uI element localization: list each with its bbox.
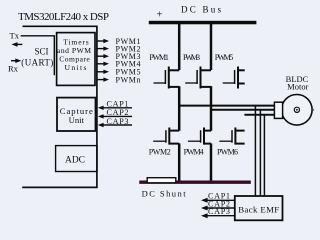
- svg-text:PWM3: PWM3: [183, 53, 200, 62]
- svg-text:(UART): (UART): [21, 58, 53, 68]
- svg-text:CAP3: CAP3: [107, 117, 129, 126]
- svg-text:Back EMF: Back EMF: [238, 204, 279, 214]
- svg-text:PWM6: PWM6: [217, 147, 238, 156]
- svg-text:PWM1: PWM1: [149, 53, 169, 62]
- svg-text:PWM2: PWM2: [149, 147, 171, 156]
- svg-text:Rx: Rx: [8, 64, 19, 74]
- svg-text:PWM5: PWM5: [215, 53, 234, 62]
- svg-text:TMS320LF240 x DSP: TMS320LF240 x DSP: [18, 11, 109, 23]
- svg-text:Unit: Unit: [69, 115, 85, 125]
- svg-text:CAP3: CAP3: [208, 207, 230, 216]
- svg-text:Tx: Tx: [10, 31, 20, 41]
- svg-text:DC Shunt: DC Shunt: [142, 189, 187, 199]
- svg-text:PWM4: PWM4: [184, 147, 204, 156]
- svg-text:PWMn: PWMn: [116, 76, 141, 85]
- svg-text:ADC: ADC: [65, 156, 85, 166]
- svg-text:+: +: [157, 9, 163, 20]
- svg-text:SCI: SCI: [34, 46, 48, 56]
- svg-text:Motor: Motor: [287, 82, 308, 92]
